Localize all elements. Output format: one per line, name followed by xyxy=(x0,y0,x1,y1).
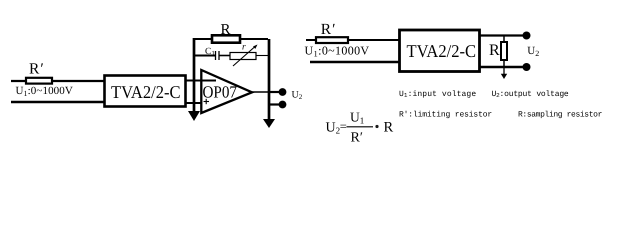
svg-text:U2:output voltage: U2:output voltage xyxy=(492,90,569,99)
svg-text:R′: R′ xyxy=(351,131,363,146)
svg-text:U1:input voltage: U1:input voltage xyxy=(399,90,476,99)
svg-text:=: = xyxy=(340,120,347,134)
svg-text:R′:limiting resistor: R′:limiting resistor xyxy=(399,111,492,120)
svg-text:R:sampling resistor: R:sampling resistor xyxy=(518,111,603,120)
svg-text:R′: R′ xyxy=(321,21,336,38)
svg-text:TVA2/2-C: TVA2/2-C xyxy=(407,41,477,61)
svg-text:R: R xyxy=(489,42,500,59)
svg-text:R′: R′ xyxy=(29,61,44,78)
svg-text:R: R xyxy=(221,22,231,38)
svg-text:OP07: OP07 xyxy=(203,83,238,102)
svg-text:R: R xyxy=(384,120,394,136)
svg-text:r: r xyxy=(242,43,246,53)
svg-text:TVA2/2-C: TVA2/2-C xyxy=(111,82,181,102)
svg-text:C1: C1 xyxy=(205,47,215,58)
